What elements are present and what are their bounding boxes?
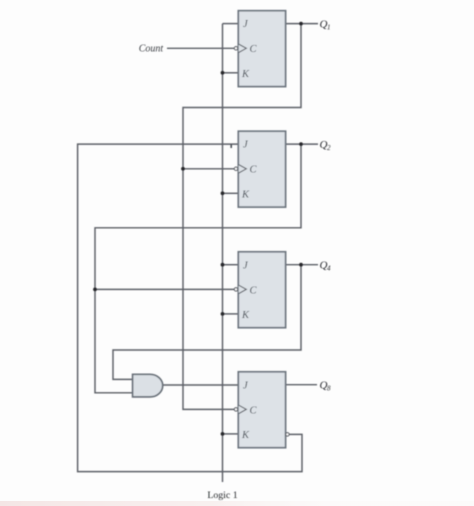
node: junction Q2 output [299, 142, 303, 146]
wire: Q4 output [286, 264, 318, 266]
node: junction Logic1 at K1 [221, 71, 225, 75]
svg-text:K: K [241, 310, 250, 321]
wire: Q8-bar feedback around bottom up to J of U2 [78, 144, 302, 472]
node: junction Q4 output [299, 263, 303, 267]
node: junction Logic1 at J3 [221, 263, 225, 267]
wire: Q4 feedback to AND gate input A [113, 265, 301, 380]
svg-text:C: C [250, 285, 258, 296]
flip-flop U1 (Q1) [234, 11, 285, 87]
wire: Q8 output [286, 384, 317, 386]
svg-text:C: C [250, 405, 258, 416]
svg-text:Q1: Q1 [320, 18, 331, 31]
svg-text:Count: Count [139, 43, 164, 54]
speck on J2 wire [230, 145, 232, 149]
AND gate G1 [133, 374, 163, 397]
svg-text:K: K [241, 69, 250, 80]
wire: Q2 feedback down-left to AND gate input B [95, 144, 301, 393]
node: junction Logic1 at K3 [221, 312, 225, 316]
flip-flop U3 (Q4) [234, 252, 285, 328]
svg-text:K: K [241, 430, 250, 441]
node: junction Q2 bus at C3 [93, 288, 97, 292]
svg-text:K: K [241, 189, 250, 200]
wire: Logic 1 to K of U4 [223, 433, 239, 435]
node: junction Logic1 at K2 [221, 191, 225, 195]
wire: Logic 1 to K of U1 [223, 72, 239, 74]
svg-text:C: C [250, 165, 258, 176]
wire: Logic 1 to K of U3 [223, 313, 239, 315]
svg-text:Q8: Q8 [320, 379, 332, 392]
wire: Logic 1 to J of U1 [223, 23, 239, 25]
wire: AND gate output to J of U4 [163, 384, 239, 386]
flip-flop U4 (Q8) [234, 372, 289, 448]
flip-flop U2 (Q2) [234, 131, 285, 207]
wire: Logic 1 to J of U3 [223, 264, 239, 266]
svg-text:Q2: Q2 [320, 139, 332, 152]
svg-text:Q4: Q4 [320, 259, 332, 272]
svg-text:Logic 1: Logic 1 [207, 490, 237, 501]
wire: stub to C of U3 [95, 288, 234, 290]
scan artifact: pink band at bottom edge [0, 501, 474, 506]
node: junction Logic1 at K4 [221, 432, 225, 436]
wire: Count input to clock of U1 [167, 47, 234, 49]
wire: Q2 output [286, 143, 318, 145]
node: junction Q1 output [299, 22, 303, 26]
wire: Q1 output [286, 23, 318, 25]
svg-text:C: C [250, 44, 258, 55]
pin: Q8-bar complement bubble [286, 433, 289, 436]
wire: clock stub to C of U2 [183, 168, 234, 170]
wire: Q1 feedback down to clock bus of U2/U4 [183, 24, 301, 410]
wire: Logic 1 to K of U2 [223, 192, 239, 194]
wire: Logic 1 vertical bus [222, 24, 224, 482]
node: junction clock bus at C2 [181, 167, 185, 171]
